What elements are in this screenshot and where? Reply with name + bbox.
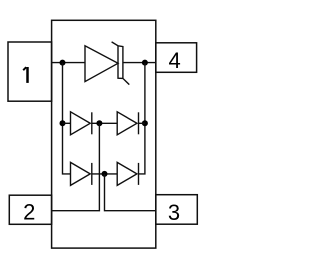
TVS diode D5 zener cathode bar <box>112 42 130 85</box>
TVS diode D5 triangle <box>85 46 118 82</box>
wire node F down and right to pin 3 <box>105 174 156 211</box>
wire pin1 to TVS anode <box>52 62 85 64</box>
diode D4 cathode bar <box>138 163 140 185</box>
right rail wire (node B down to bottom row) <box>139 63 145 174</box>
package body outline <box>52 20 156 248</box>
pin box 4 <box>156 43 197 73</box>
pin 1 label <box>23 67 26 70</box>
wire node C to diode D1 <box>63 122 71 124</box>
pin box 2 <box>9 195 51 224</box>
svg-text:2: 2 <box>23 200 35 225</box>
svg-text:3: 3 <box>168 200 180 225</box>
diode D2 cathode bar <box>138 112 140 134</box>
diode D1 triangle <box>71 112 91 135</box>
diode D1 cathode bar <box>91 112 93 134</box>
node E junction dot <box>142 120 148 126</box>
pin box 3 <box>156 195 198 225</box>
diode D2 triangle <box>117 112 137 135</box>
node D junction dot <box>96 120 102 126</box>
node B junction dot <box>142 60 148 66</box>
wire TVS cathode to pin4 <box>123 62 156 64</box>
diode D3 triangle <box>71 162 91 185</box>
wire node D down and left to pin 2 <box>52 123 100 210</box>
pin box 1 <box>8 42 52 101</box>
diode D4 triangle <box>117 162 137 185</box>
svg-text:4: 4 <box>169 48 181 73</box>
left rail wire (node A down to bottom row) <box>63 63 71 174</box>
diode D3 cathode bar <box>91 163 93 185</box>
node C junction dot <box>60 120 66 126</box>
wire D2 cathode to node E <box>139 122 145 124</box>
node F junction dot <box>102 171 108 177</box>
node A junction dot <box>60 60 66 66</box>
wire D3 cathode to D4 anode <box>92 173 117 175</box>
wire D1 cathode to D2 anode <box>92 122 117 124</box>
